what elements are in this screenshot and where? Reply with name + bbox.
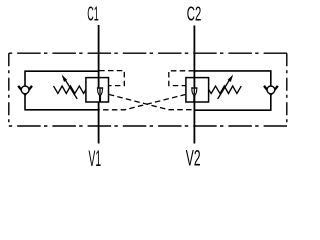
svg-text:C2: C2 [187, 3, 202, 25]
check valve left (ball and seat) [18, 86, 32, 95]
pilot line cross A (left box to V2) [109, 94, 195, 109]
poppet element right (bar, stem and seat cone) [191, 87, 197, 102]
wire right valve bypass loop [194, 70, 270, 111]
enclosure boundary (dash-dot frame) [9, 53, 287, 126]
spring right (adjustable) [209, 86, 242, 94]
wire C1-V1 vertical line [98, 25, 100, 88]
pilot line cross B (right box to V1) [99, 94, 186, 109]
pilot line right internal (dashed loop) [169, 71, 194, 86]
wire C2-V2 vertical line [193, 26, 195, 88]
spring left (adjustable) [54, 86, 86, 94]
svg-text:V1: V1 [89, 146, 102, 171]
wire left valve bypass loop [25, 71, 99, 111]
pilot line left internal (dashed loop) [99, 71, 124, 86]
valve body box right [186, 78, 209, 102]
valve body box left [86, 78, 109, 102]
svg-text:V2: V2 [186, 146, 201, 171]
check valve right (ball and seat) [264, 86, 278, 95]
poppet element left (bar, stem and seat cone) [97, 87, 103, 102]
adjustment arrow right [218, 75, 234, 100]
svg-text:C1: C1 [87, 3, 99, 25]
adjustment arrow left [62, 75, 78, 100]
